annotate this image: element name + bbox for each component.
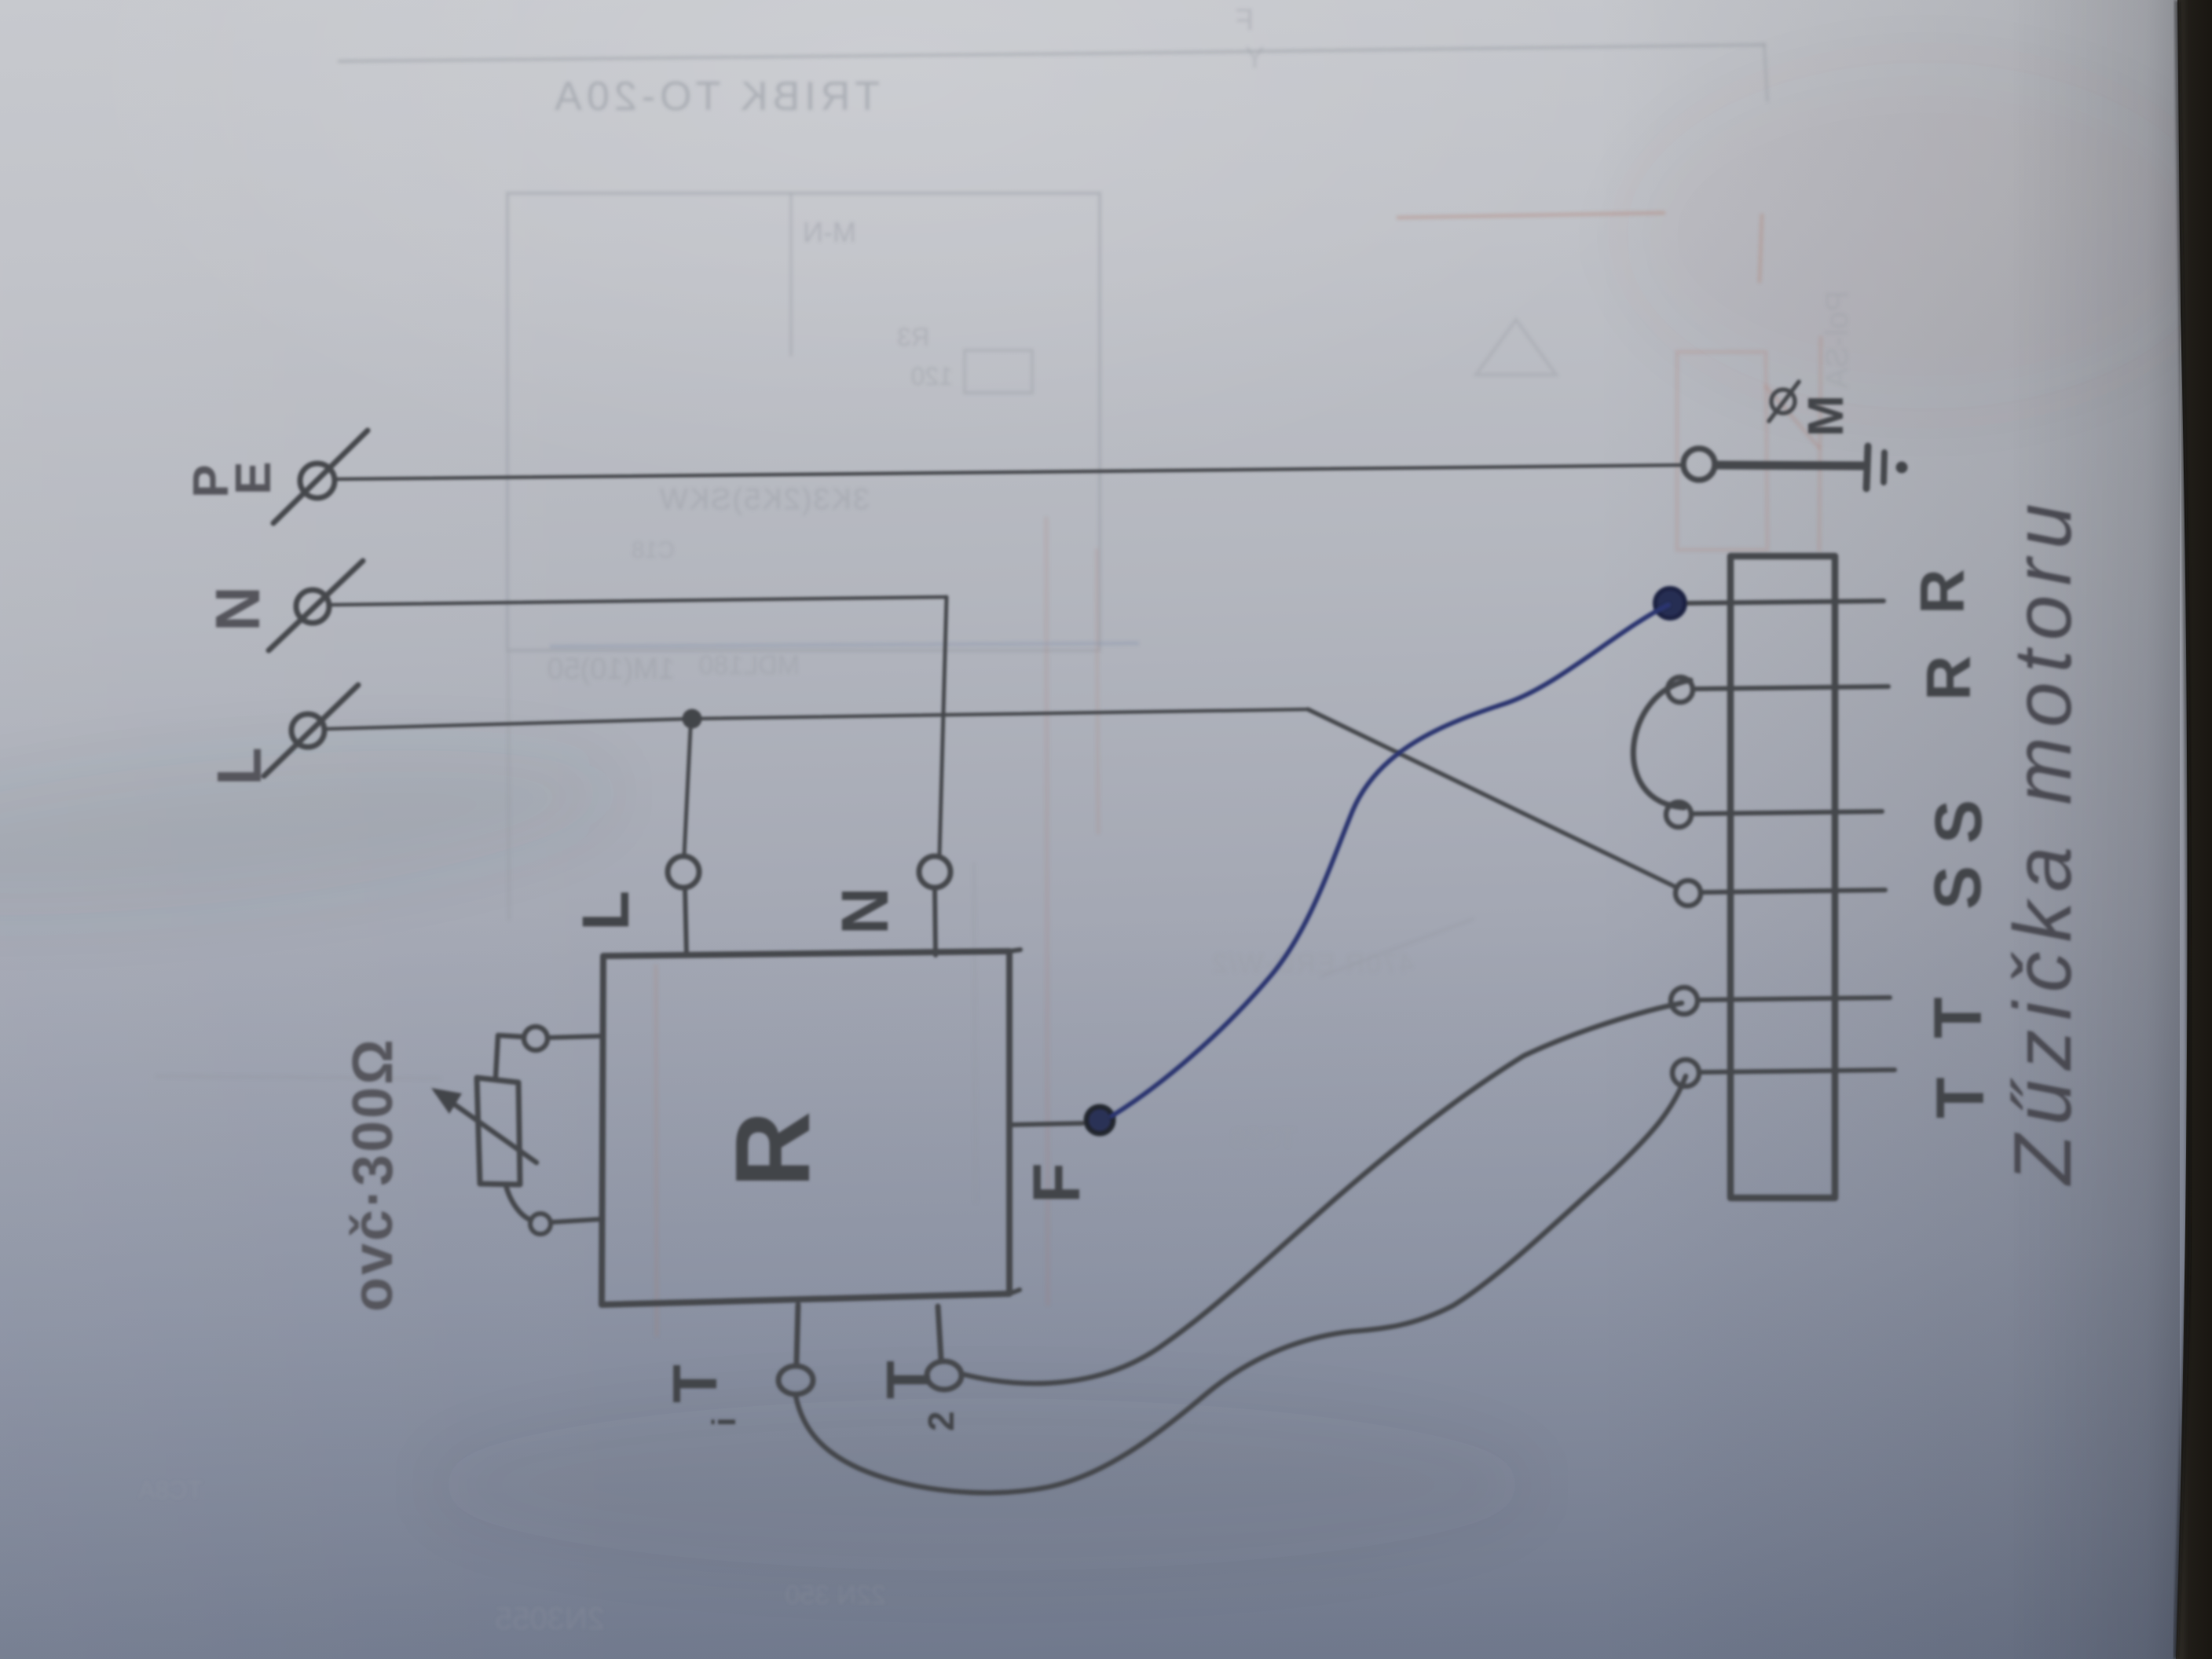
svg-text:Pol-SA: Pol-SA bbox=[1820, 291, 1855, 389]
svg-text:T: T bbox=[1921, 997, 1996, 1038]
svg-text:3K3(2K5)SKW: 3K3(2K5)SKW bbox=[658, 483, 870, 516]
svg-text:M: M bbox=[1797, 395, 1854, 437]
svg-text:L: L bbox=[569, 891, 643, 931]
svg-text:N: N bbox=[203, 586, 273, 632]
svg-text:E: E bbox=[225, 461, 281, 495]
svg-text:F: F bbox=[1020, 1163, 1094, 1203]
svg-text:120: 120 bbox=[911, 362, 953, 390]
svg-text:Y: Y bbox=[1245, 42, 1265, 75]
svg-text:470R ERD-W/2: 470R ERD-W/2 bbox=[1211, 949, 1414, 979]
svg-text:R: R bbox=[1907, 569, 1977, 614]
svg-text:L: L bbox=[204, 747, 274, 786]
svg-text:T: T bbox=[660, 1364, 730, 1403]
svg-text:22N 350: 22N 350 bbox=[785, 1580, 886, 1610]
svg-text:T: T bbox=[873, 1361, 943, 1399]
svg-text:C18: C18 bbox=[632, 537, 675, 563]
svg-text:TC58: TC58 bbox=[1231, 1123, 1296, 1153]
svg-text:R3: R3 bbox=[897, 323, 929, 351]
svg-text:2N3055: 2N3055 bbox=[495, 1602, 605, 1636]
svg-text:TRIBK TO-20A: TRIBK TO-20A bbox=[550, 74, 880, 119]
svg-text:S: S bbox=[1921, 866, 1994, 910]
svg-text:ovč·300Ω: ovč·300Ω bbox=[342, 1037, 405, 1312]
svg-text:R: R bbox=[1914, 655, 1983, 701]
svg-text:2: 2 bbox=[921, 1411, 961, 1431]
svg-text:T: T bbox=[1923, 1077, 1998, 1119]
svg-text:MDL180: MDL180 bbox=[698, 650, 800, 680]
svg-text:F: F bbox=[1236, 4, 1254, 37]
svg-text:S: S bbox=[1921, 800, 1995, 844]
svg-text:TC8A: TC8A bbox=[138, 1476, 203, 1504]
svg-text:i: i bbox=[705, 1417, 742, 1426]
svg-text:M-N: M-N bbox=[803, 216, 856, 248]
svg-text:R: R bbox=[713, 1111, 832, 1188]
svg-text:1M(10)50: 1M(10)50 bbox=[547, 653, 675, 686]
svg-text:N: N bbox=[828, 887, 902, 935]
